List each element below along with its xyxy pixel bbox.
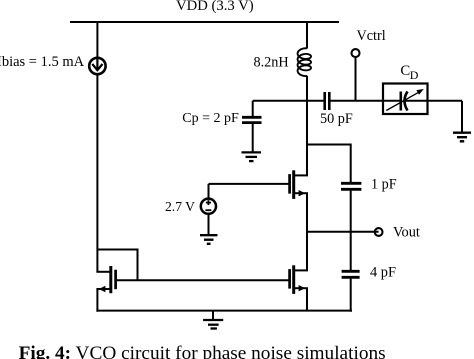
- svg-text:Ibias = 1.5 mA: Ibias = 1.5 mA: [0, 54, 85, 70]
- svg-text:2.7 V: 2.7 V: [165, 199, 195, 214]
- svg-text:Cp = 2 pF: Cp = 2 pF: [182, 111, 239, 126]
- svg-text:8.2nH: 8.2nH: [254, 55, 289, 71]
- svg-text:1 pF: 1 pF: [371, 177, 397, 193]
- svg-text:D: D: [410, 68, 419, 82]
- svg-text:Vout: Vout: [393, 224, 420, 240]
- svg-text:Fig. 4: VCO circuit for phase: Fig. 4: VCO circuit for phase noise simu…: [19, 343, 386, 359]
- svg-text:VDD (3.3 V): VDD (3.3 V): [176, 0, 254, 14]
- svg-text:50 pF: 50 pF: [320, 111, 353, 127]
- svg-text:4 pF: 4 pF: [370, 265, 396, 281]
- svg-text:Vctrl: Vctrl: [357, 28, 386, 44]
